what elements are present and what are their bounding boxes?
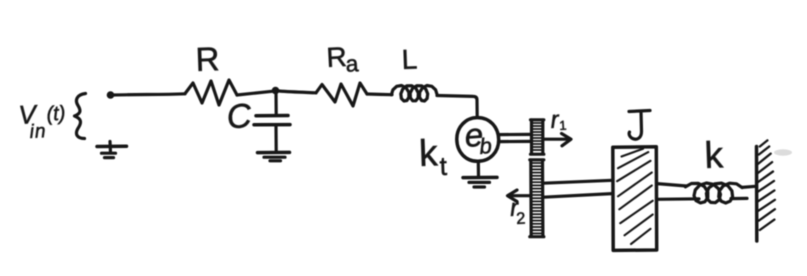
shaft rack to J (544, 180, 613, 183)
svg-text:L: L (401, 43, 418, 75)
shaft J to spring (657, 184, 687, 186)
gear rack r1 (531, 120, 544, 154)
block J (613, 147, 657, 251)
wire spring to wall (742, 186, 756, 187)
node dot A (107, 91, 115, 99)
arrow r1 (544, 138, 570, 141)
svg-text:(t): (t) (46, 103, 66, 126)
spring k (685, 183, 742, 203)
wire input (113, 94, 185, 95)
wire junction to Ra (279, 91, 316, 93)
svg-text:b: b (479, 133, 493, 159)
wall (757, 140, 775, 241)
label J (629, 111, 650, 140)
wire Ra to L (367, 92, 392, 96)
inductor L (391, 86, 437, 102)
svg-text:a: a (345, 50, 359, 77)
shaft motor to rack r1 (499, 133, 531, 136)
ground capacitor (258, 152, 290, 160)
label Vin(t) (18, 99, 66, 143)
svg-text:R: R (195, 40, 220, 78)
brace (75, 94, 86, 139)
wire R to junction (237, 91, 272, 95)
junction dot (272, 87, 280, 95)
smudge (774, 149, 792, 155)
motor circle U1 (457, 118, 499, 162)
wire L to motor (437, 96, 477, 118)
gear rack r2 (530, 160, 544, 237)
svg-text:k: k (704, 134, 724, 176)
ground motor (463, 162, 497, 188)
arrow r2 (510, 194, 531, 197)
svg-text:C: C (225, 97, 254, 137)
resistor Ra (316, 83, 367, 106)
svg-text:k: k (418, 132, 438, 174)
svg-text:1: 1 (559, 118, 567, 133)
wire stub below spring (731, 197, 747, 200)
ground input (97, 142, 127, 158)
resistor R (185, 80, 237, 105)
capacitor C (254, 92, 290, 151)
svg-text:2: 2 (516, 210, 526, 228)
svg-text:in: in (29, 121, 47, 143)
